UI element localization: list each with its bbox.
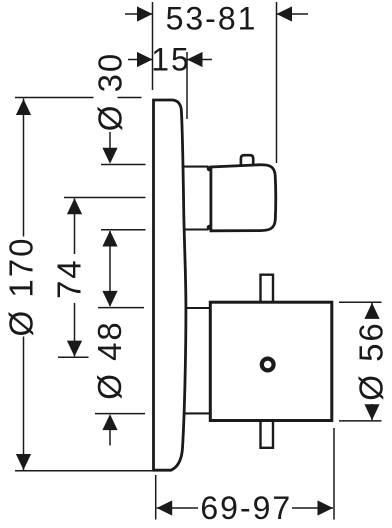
dimension 69-97: label background <box>198 494 292 522</box>
handle upper neck bottom line <box>184 228 209 230</box>
valve body square <box>210 302 331 420</box>
dimension 74: dimension line <box>74 199 76 357</box>
top stem <box>261 275 274 302</box>
svg-text:53-81: 53-81 <box>166 1 258 37</box>
svg-text:Ø 56: Ø 56 <box>353 321 390 401</box>
dimension D56: dimension line <box>371 303 373 420</box>
handle upper neck top line <box>184 166 209 168</box>
dimension 53-81: left extension line (wall face) <box>152 2 154 90</box>
dimension D56: top arrowhead <box>364 303 379 319</box>
dimension D30: bottom tick <box>101 229 146 231</box>
dimension D56: bottom arrowhead <box>364 404 379 420</box>
dimension 69-97: right extension line <box>333 428 335 520</box>
svg-text:Ø 30: Ø 30 <box>92 52 129 132</box>
svg-text:Ø 48: Ø 48 <box>91 320 128 400</box>
dimension 74: bottom arrowhead <box>67 341 82 357</box>
dimension D30 / D48 shared arrow tail <box>109 231 111 306</box>
dimension 69-97: dimension line <box>157 507 333 509</box>
lower neck bottom line <box>184 412 210 414</box>
dimension D170: top tick <box>15 97 142 99</box>
dimension D30: lower arrowhead (pointing up) <box>102 231 117 247</box>
dimension D170: top arrowhead <box>16 99 31 115</box>
escutcheon plate (side view) <box>154 100 186 470</box>
dimension D48: top tick <box>98 307 144 309</box>
dimension D170: bottom tick <box>15 470 153 472</box>
dimension D170: label background <box>8 237 38 337</box>
dimension 69-97: left extension line <box>155 475 157 520</box>
dimension D30: label background <box>94 91 118 105</box>
dimension 74: bottom tick <box>58 356 89 358</box>
dimension 74: top tick <box>64 197 146 199</box>
dimension D170: bottom arrowhead <box>16 454 31 470</box>
neck joint dot top <box>207 166 212 171</box>
dimension 15: right arrow tail <box>187 59 212 61</box>
dimension 15: right extension line <box>186 52 188 119</box>
dimension 74: top arrowhead <box>67 198 82 214</box>
dimension 74: label background <box>60 254 89 303</box>
dimension D48: lower arrow tail <box>109 429 111 446</box>
dimension 69-97: right arrowhead <box>318 500 334 515</box>
dimension D48: upper arrowhead (pointing down) <box>102 291 117 307</box>
dimension D56: bottom tick <box>339 420 382 422</box>
lower neck top line <box>185 307 211 309</box>
handle grip tab <box>241 155 253 165</box>
dimension D30: top tick <box>101 164 146 166</box>
thermostat handle knob <box>211 165 276 231</box>
bottom stem <box>261 421 274 448</box>
dimension 53-81: left arrow tail <box>125 13 153 15</box>
dimension D30: upper arrow tail <box>109 132 111 149</box>
svg-text:15: 15 <box>151 42 191 78</box>
dimension D170: dimension line <box>23 99 25 471</box>
dimension 53-81: right extension line (knob front) <box>276 2 278 163</box>
dimension 15: right arrowhead <box>187 52 203 67</box>
svg-text:69-97: 69-97 <box>200 490 292 526</box>
dimension D56: label background <box>357 318 386 404</box>
neck joint dot bottom <box>207 225 212 230</box>
dimension 15: left arrow tail <box>128 59 153 61</box>
dimension D30: upper arrowhead (pointing down) <box>102 148 117 164</box>
svg-text:Ø 170: Ø 170 <box>3 237 40 337</box>
dimension 69-97: left arrowhead <box>157 500 173 515</box>
dimension 53-81: right arrowhead <box>277 6 293 21</box>
dimension D48: lower arrowhead (pointing up) <box>102 414 117 430</box>
dimension 53-81: right arrow tail <box>277 13 309 15</box>
dimension D48: bottom tick <box>95 413 145 415</box>
dimension 53-81: left arrowhead <box>137 6 153 21</box>
dimension D56: top tick <box>339 301 382 303</box>
dimension 15: left arrowhead <box>137 52 153 67</box>
svg-text:74: 74 <box>51 258 88 299</box>
screw circle <box>262 359 274 371</box>
